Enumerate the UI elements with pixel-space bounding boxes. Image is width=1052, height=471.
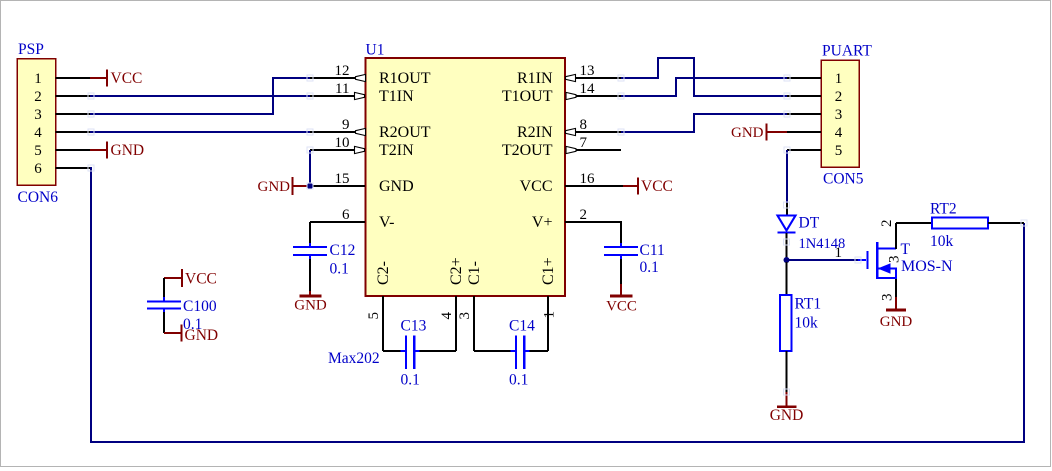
svg-text:3: 3 [887, 256, 903, 264]
svg-text:T1IN: T1IN [379, 88, 414, 105]
svg-text:4: 4 [439, 312, 455, 320]
svg-text:Max202: Max202 [328, 350, 380, 367]
svg-text:VCC: VCC [520, 178, 553, 195]
svg-text:T: T [901, 241, 911, 258]
svg-text:VCC: VCC [606, 299, 637, 315]
svg-text:3: 3 [835, 107, 843, 123]
svg-text:8: 8 [580, 117, 588, 133]
svg-text:C1-: C1- [466, 261, 483, 285]
svg-text:10k: 10k [795, 315, 819, 332]
svg-text:DT: DT [799, 215, 820, 232]
svg-text:1: 1 [34, 71, 42, 87]
svg-text:CON6: CON6 [18, 189, 59, 206]
svg-text:MOS-N: MOS-N [901, 258, 953, 275]
svg-text:10: 10 [335, 135, 350, 151]
svg-text:2: 2 [879, 220, 895, 228]
svg-text:16: 16 [580, 171, 596, 187]
svg-text:2: 2 [580, 207, 588, 223]
svg-text:4: 4 [34, 125, 42, 141]
svg-text:C13: C13 [401, 318, 427, 335]
svg-text:R1IN: R1IN [517, 70, 553, 87]
svg-text:C1+: C1+ [540, 257, 557, 285]
svg-text:GND: GND [731, 125, 764, 141]
svg-text:V-: V- [379, 214, 394, 231]
svg-text:V+: V+ [532, 214, 553, 231]
svg-text:GND: GND [111, 142, 145, 159]
svg-text:3: 3 [457, 312, 473, 320]
svg-text:C100: C100 [183, 298, 217, 315]
svg-text:3: 3 [880, 294, 896, 302]
svg-text:C11: C11 [640, 242, 665, 259]
svg-text:5: 5 [34, 143, 42, 159]
svg-text:VCC: VCC [641, 178, 673, 195]
svg-text:13: 13 [580, 63, 595, 79]
svg-text:6: 6 [342, 207, 350, 223]
svg-text:10k: 10k [930, 233, 954, 250]
svg-text:RT1: RT1 [795, 296, 822, 313]
svg-text:T2IN: T2IN [379, 142, 414, 159]
svg-text:C2-: C2- [375, 261, 392, 285]
svg-text:0.1: 0.1 [401, 372, 420, 389]
svg-text:R1OUT: R1OUT [379, 70, 431, 87]
svg-text:7: 7 [580, 135, 588, 151]
svg-text:R2IN: R2IN [517, 124, 553, 141]
svg-text:2: 2 [34, 89, 42, 105]
svg-text:C2+: C2+ [448, 257, 465, 285]
svg-text:T2OUT: T2OUT [502, 142, 553, 159]
svg-text:15: 15 [335, 171, 350, 187]
svg-text:1: 1 [542, 311, 558, 319]
svg-text:PUART: PUART [822, 43, 872, 60]
svg-text:GND: GND [379, 178, 414, 195]
svg-text:6: 6 [34, 161, 42, 177]
svg-text:GND: GND [258, 179, 291, 195]
svg-text:5: 5 [366, 312, 382, 320]
svg-text:1: 1 [835, 71, 843, 87]
svg-text:9: 9 [342, 117, 350, 133]
svg-text:14: 14 [580, 81, 596, 97]
svg-text:R2OUT: R2OUT [379, 124, 431, 141]
svg-text:0.1: 0.1 [640, 259, 659, 276]
svg-text:CON5: CON5 [823, 171, 864, 188]
svg-text:2: 2 [835, 89, 843, 105]
svg-text:T1OUT: T1OUT [502, 88, 553, 105]
svg-text:GND: GND [880, 314, 913, 330]
svg-text:VCC: VCC [111, 70, 143, 87]
svg-text:PSP: PSP [18, 41, 44, 58]
svg-text:C12: C12 [330, 242, 356, 259]
svg-text:RT2: RT2 [930, 201, 957, 218]
svg-text:0.1: 0.1 [183, 316, 202, 333]
svg-text:GND: GND [770, 407, 804, 424]
svg-text:12: 12 [335, 63, 350, 79]
svg-text:GND: GND [294, 298, 327, 314]
svg-text:5: 5 [835, 143, 843, 159]
svg-text:0.1: 0.1 [509, 372, 528, 389]
svg-text:C14: C14 [509, 318, 535, 335]
svg-text:1: 1 [835, 245, 843, 261]
svg-text:VCC: VCC [185, 271, 217, 288]
svg-text:3: 3 [34, 107, 42, 123]
svg-text:11: 11 [335, 81, 349, 97]
svg-text:4: 4 [835, 125, 843, 141]
svg-text:U1: U1 [366, 42, 385, 59]
svg-text:0.1: 0.1 [330, 261, 349, 278]
